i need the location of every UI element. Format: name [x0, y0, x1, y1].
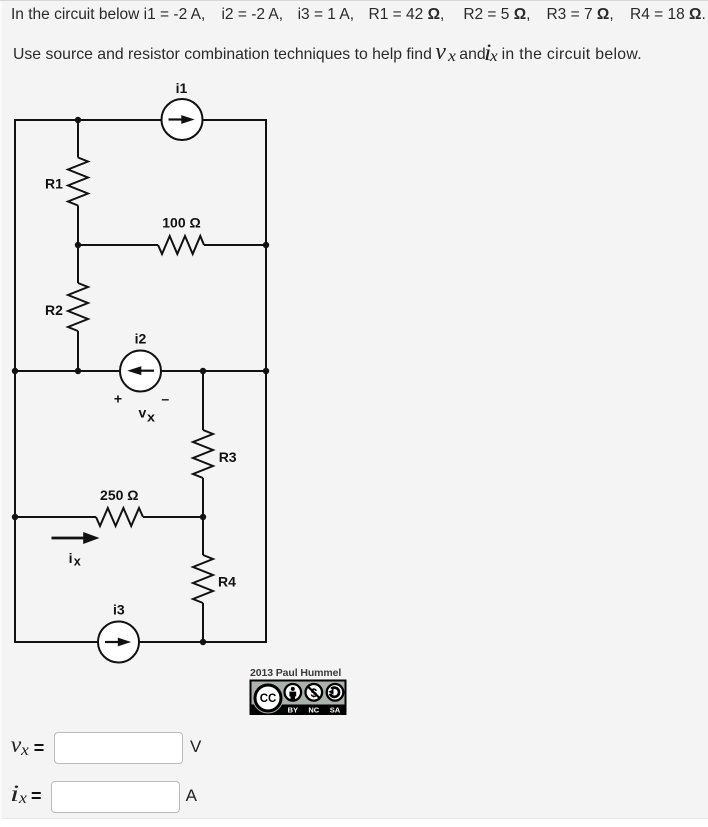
svg-text:R3: R3 [219, 449, 237, 465]
node dot x78 100ohm row [75, 242, 81, 248]
wire i2 row [15, 370, 266, 372]
svg-text:x: x [147, 411, 155, 425]
NC icon [306, 684, 323, 701]
node dot x78 i2 row [75, 368, 81, 374]
svg-text:i2: i2 [135, 331, 147, 347]
node dot left 250ohm row [12, 514, 18, 520]
wire 250 ohm row left [15, 516, 96, 518]
wire 100 ohm row right [204, 244, 266, 246]
wire right side [265, 119, 267, 643]
node dot x78 top [75, 117, 81, 123]
current source i3 [98, 622, 139, 663]
CC logo circle [253, 683, 284, 714]
resistor R1 [68, 158, 88, 206]
arrow of i2 [140, 370, 154, 372]
node dot right i2 row [263, 368, 269, 374]
problem statement line 1 [11, 7, 706, 23]
wire below R2 [77, 331, 79, 372]
svg-text:CC: CC [260, 693, 277, 705]
wire 100 ohm row left [78, 244, 158, 246]
resistor R4 [193, 555, 213, 603]
answer row ix [10, 783, 19, 807]
wire between R3 and R4 [202, 478, 204, 555]
BY icon [285, 684, 302, 701]
svg-text:i3: i3 [113, 602, 125, 618]
svg-text:250 Ω: 250 Ω [100, 487, 138, 503]
wire below R4 [202, 603, 204, 642]
svg-text:–: – [161, 391, 169, 407]
resistor 100 ohm [158, 236, 204, 254]
answer box vx [54, 732, 183, 764]
wire branch x=78 upper [77, 120, 79, 158]
svg-text:100 Ω: 100 Ω [162, 215, 200, 231]
svg-text:v: v [139, 405, 147, 421]
svg-text:NC: NC [308, 706, 319, 715]
wire left side [14, 119, 16, 643]
current source i1 [162, 99, 203, 140]
CC license badge [251, 681, 346, 715]
wire top: node A row [15, 119, 266, 121]
node dot x203 i2 row [200, 368, 206, 374]
credit text [250, 667, 341, 679]
svg-text:i1: i1 [176, 80, 188, 96]
wire bottom [15, 641, 266, 643]
wire between R1 and R2 [77, 206, 79, 284]
SA icon [327, 684, 344, 701]
arrow of i3 [105, 641, 120, 643]
node dot right 100ohm row [263, 242, 269, 248]
node dot x203 250ohm row [200, 514, 206, 520]
arrow ix [52, 537, 85, 540]
svg-text:R4: R4 [218, 574, 236, 590]
answer box ix [51, 781, 180, 813]
svg-text:SA: SA [330, 706, 341, 715]
resistor 250 ohm [96, 508, 143, 526]
svg-text:+: + [114, 391, 122, 407]
current source i2 [120, 351, 161, 392]
svg-text:x: x [74, 555, 81, 569]
svg-text:R1: R1 [45, 176, 63, 192]
svg-text:i: i [69, 550, 73, 566]
wire 250 ohm row right [143, 516, 203, 518]
svg-text:BY: BY [288, 706, 298, 715]
resistor R3 [193, 430, 213, 478]
svg-text:R2: R2 [45, 302, 63, 318]
node dot left i2 row [12, 368, 18, 374]
node dot x203 bottom [200, 639, 206, 645]
answer row vx [11, 734, 21, 758]
resistor R2 [68, 283, 88, 331]
problem statement line 2 [13, 47, 432, 63]
arrow of i1 [169, 118, 184, 120]
wire branch x=203 upper [202, 371, 204, 430]
